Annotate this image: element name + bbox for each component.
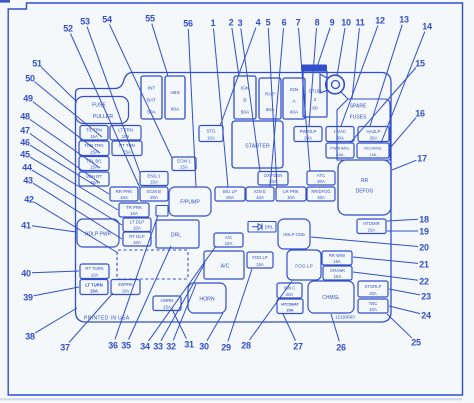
svg-text:RR: RR	[361, 178, 369, 184]
svg-text:PWR/LP: PWR/LP	[300, 129, 317, 134]
svg-text:55: 55	[145, 14, 155, 24]
svg-text:54: 54	[102, 15, 112, 25]
svg-text:38: 38	[25, 332, 35, 342]
svg-text:30A: 30A	[317, 195, 325, 200]
svg-text:HDLP GND: HDLP GND	[283, 232, 305, 237]
svg-text:56: 56	[183, 19, 193, 29]
svg-text:40A: 40A	[290, 110, 299, 116]
svg-text:52: 52	[63, 24, 73, 34]
svg-text:10A: 10A	[368, 227, 376, 232]
svg-text:HTDMIR: HTDMIR	[363, 221, 379, 226]
svg-text:8: 8	[315, 18, 320, 28]
svg-text:PULLER: PULLER	[93, 114, 113, 120]
svg-text:47: 47	[20, 126, 30, 136]
svg-text:RAP: RAP	[265, 91, 275, 97]
svg-text:STARTER: STARTER	[245, 144, 270, 150]
svg-text:41: 41	[21, 221, 31, 231]
svg-text:46: 46	[20, 138, 30, 148]
svg-text:RT TURN: RT TURN	[85, 266, 103, 271]
svg-text:5: 5	[266, 18, 271, 28]
svg-text:27: 27	[293, 342, 303, 352]
svg-text:LT DLP: LT DLP	[130, 220, 145, 225]
svg-text:DRL: DRL	[265, 225, 274, 230]
svg-text:CRANK: CRANK	[330, 268, 345, 273]
svg-text:10A: 10A	[207, 135, 215, 140]
svg-text:10A: 10A	[122, 288, 130, 293]
svg-text:4: 4	[256, 18, 261, 28]
svg-text:51: 51	[32, 59, 42, 69]
svg-text:CHMSL: CHMSL	[322, 295, 340, 301]
svg-text:OXYGEN: OXYGEN	[264, 173, 283, 178]
svg-text:13: 13	[399, 15, 409, 25]
svg-text:HORN: HORN	[199, 297, 215, 303]
svg-text:12193663: 12193663	[335, 315, 355, 320]
svg-text:26: 26	[336, 343, 346, 353]
svg-text:10A: 10A	[133, 225, 141, 230]
svg-text:DRL: DRL	[171, 233, 181, 239]
svg-text:3: 3	[238, 18, 243, 28]
svg-text:B/U LP: B/U LP	[223, 189, 237, 194]
svg-text:14: 14	[422, 22, 432, 32]
svg-text:7: 7	[296, 18, 301, 28]
svg-text:RT DLP: RT DLP	[129, 234, 145, 239]
svg-text:21: 21	[419, 260, 429, 270]
svg-text:10A: 10A	[334, 274, 342, 279]
svg-text:28: 28	[241, 341, 251, 351]
svg-text:53: 53	[80, 17, 90, 27]
svg-text:50A: 50A	[266, 107, 275, 113]
svg-text:10: 10	[341, 18, 351, 28]
svg-text:48: 48	[20, 112, 30, 122]
svg-text:A/C: A/C	[221, 264, 230, 270]
svg-text:4WPRK: 4WPRK	[118, 282, 133, 287]
svg-text:35: 35	[121, 341, 131, 351]
svg-text:2: 2	[314, 97, 317, 103]
svg-text:ATC: ATC	[317, 173, 325, 178]
svg-text:37: 37	[60, 343, 70, 353]
svg-text:29: 29	[221, 343, 231, 353]
svg-text:FUSES: FUSES	[350, 115, 367, 121]
svg-text:HDLP PWR: HDLP PWR	[85, 232, 112, 238]
svg-text:20A: 20A	[226, 195, 234, 200]
svg-text:10A: 10A	[287, 195, 295, 200]
svg-text:FOG LP: FOG LP	[295, 264, 313, 270]
svg-text:50: 50	[25, 74, 35, 84]
svg-text:30: 30	[199, 342, 209, 352]
svg-text:20A: 20A	[304, 135, 312, 140]
svg-text:10A: 10A	[122, 134, 130, 139]
svg-text:SPARE: SPARE	[350, 104, 367, 110]
svg-text:ECM B: ECM B	[147, 189, 161, 194]
svg-text:17: 17	[417, 154, 427, 164]
svg-text:25: 25	[411, 338, 421, 348]
svg-text:20A: 20A	[150, 195, 158, 200]
svg-text:18: 18	[419, 215, 429, 225]
svg-text:36: 36	[108, 341, 118, 351]
svg-text:PWDHMSL: PWDHMSL	[330, 146, 349, 150]
svg-text:TRL B/L: TRL B/L	[86, 158, 102, 163]
svg-text:STGRLP: STGRLP	[365, 284, 382, 289]
svg-text:10A: 10A	[120, 195, 128, 200]
svg-text:11: 11	[356, 18, 365, 28]
svg-text:IGN: IGN	[290, 87, 299, 93]
svg-text:42: 42	[24, 195, 34, 205]
svg-text:B: B	[243, 97, 246, 103]
svg-text:15A: 15A	[337, 153, 344, 157]
svg-text:20A: 20A	[370, 135, 378, 140]
svg-text:20A: 20A	[317, 179, 325, 184]
svg-text:HAZLP: HAZLP	[366, 129, 380, 134]
svg-text:10A: 10A	[369, 307, 377, 312]
svg-text:43: 43	[23, 176, 33, 186]
svg-text:FOG LP: FOG LP	[252, 255, 268, 260]
svg-text:50A: 50A	[241, 109, 250, 115]
svg-text:1: 1	[211, 18, 216, 28]
svg-text:HORN: HORN	[161, 298, 174, 303]
svg-text:9: 9	[330, 18, 335, 28]
svg-text:12: 12	[375, 16, 385, 26]
svg-text:6: 6	[282, 18, 287, 28]
svg-text:20A: 20A	[369, 291, 377, 296]
svg-text:15A: 15A	[163, 304, 171, 309]
svg-text:LR PRK: LR PRK	[283, 189, 299, 194]
svg-text:15: 15	[415, 59, 425, 69]
svg-text:24: 24	[421, 311, 431, 321]
svg-text:10A: 10A	[133, 240, 141, 245]
svg-text:RR W/W: RR W/W	[329, 253, 345, 258]
svg-text:22: 22	[419, 277, 429, 287]
svg-text:F/PUMP: F/PUMP	[180, 200, 200, 206]
svg-text:ECM 1: ECM 1	[177, 159, 191, 164]
svg-text:45: 45	[20, 150, 30, 160]
svg-text:60A: 60A	[171, 107, 180, 113]
svg-text:HVAC: HVAC	[334, 129, 346, 134]
svg-text:15A: 15A	[90, 134, 98, 139]
svg-text:10A: 10A	[130, 211, 138, 216]
svg-text:60: 60	[312, 106, 318, 112]
svg-text:10A: 10A	[90, 289, 98, 294]
svg-text:RR PRK: RR PRK	[116, 189, 133, 194]
svg-text:20A: 20A	[286, 292, 294, 297]
svg-text:TR PRK: TR PRK	[126, 205, 142, 210]
svg-text:A/C: A/C	[225, 235, 232, 240]
svg-text:2: 2	[229, 18, 234, 28]
svg-text:INT: INT	[148, 85, 156, 91]
svg-text:15A: 15A	[90, 164, 98, 169]
svg-text:HTCSEAT: HTCSEAT	[281, 303, 299, 307]
svg-text:LT TURN: LT TURN	[85, 282, 103, 287]
svg-text:15A: 15A	[370, 153, 377, 157]
svg-text:DEFOG: DEFOG	[356, 189, 374, 195]
svg-text:10A: 10A	[225, 241, 233, 246]
svg-text:39: 39	[23, 293, 33, 303]
svg-text:RR/DFOG: RR/DFOG	[311, 189, 330, 194]
svg-text:44: 44	[22, 163, 32, 173]
svg-text:40: 40	[21, 269, 31, 279]
svg-text:19: 19	[419, 227, 429, 237]
svg-text:20: 20	[419, 243, 429, 253]
svg-text:ENG 1: ENG 1	[147, 173, 161, 178]
svg-text:BAT: BAT	[147, 97, 156, 103]
svg-text:15A: 15A	[256, 262, 264, 267]
svg-text:16: 16	[415, 109, 425, 119]
svg-text:32: 32	[166, 342, 176, 352]
svg-text:10A: 10A	[256, 195, 264, 200]
svg-text:15A: 15A	[180, 164, 188, 169]
svg-text:10A: 10A	[91, 272, 99, 277]
svg-text:30A: 30A	[336, 135, 344, 140]
svg-text:49: 49	[23, 94, 33, 104]
svg-text:33: 33	[153, 342, 163, 352]
svg-text:34: 34	[140, 342, 150, 352]
svg-text:TBC: TBC	[369, 301, 378, 306]
svg-text:STG: STG	[206, 128, 216, 133]
svg-text:15A: 15A	[333, 259, 341, 264]
svg-text:20A: 20A	[287, 309, 294, 313]
svg-text:31: 31	[184, 340, 194, 350]
svg-text:VECHMSL: VECHMSL	[364, 146, 382, 150]
svg-text:ABS: ABS	[170, 90, 180, 96]
svg-text:IGN E: IGN E	[254, 189, 266, 194]
svg-text:10A: 10A	[150, 179, 158, 184]
svg-text:23: 23	[421, 292, 431, 302]
